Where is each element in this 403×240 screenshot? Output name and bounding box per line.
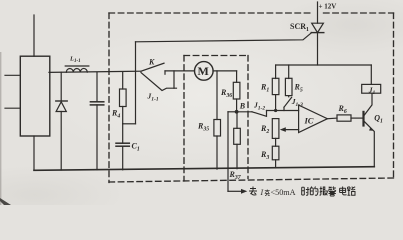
svg-text:M: M: [198, 64, 209, 78]
svg-text:K: K: [148, 58, 155, 67]
svg-text:B: B: [239, 102, 246, 111]
svg-text:I: I: [260, 188, 264, 197]
svg-text:+ 12V: + 12V: [319, 3, 337, 11]
svg-text:<50mA: <50mA: [271, 188, 296, 197]
svg-text:IC: IC: [304, 116, 314, 126]
